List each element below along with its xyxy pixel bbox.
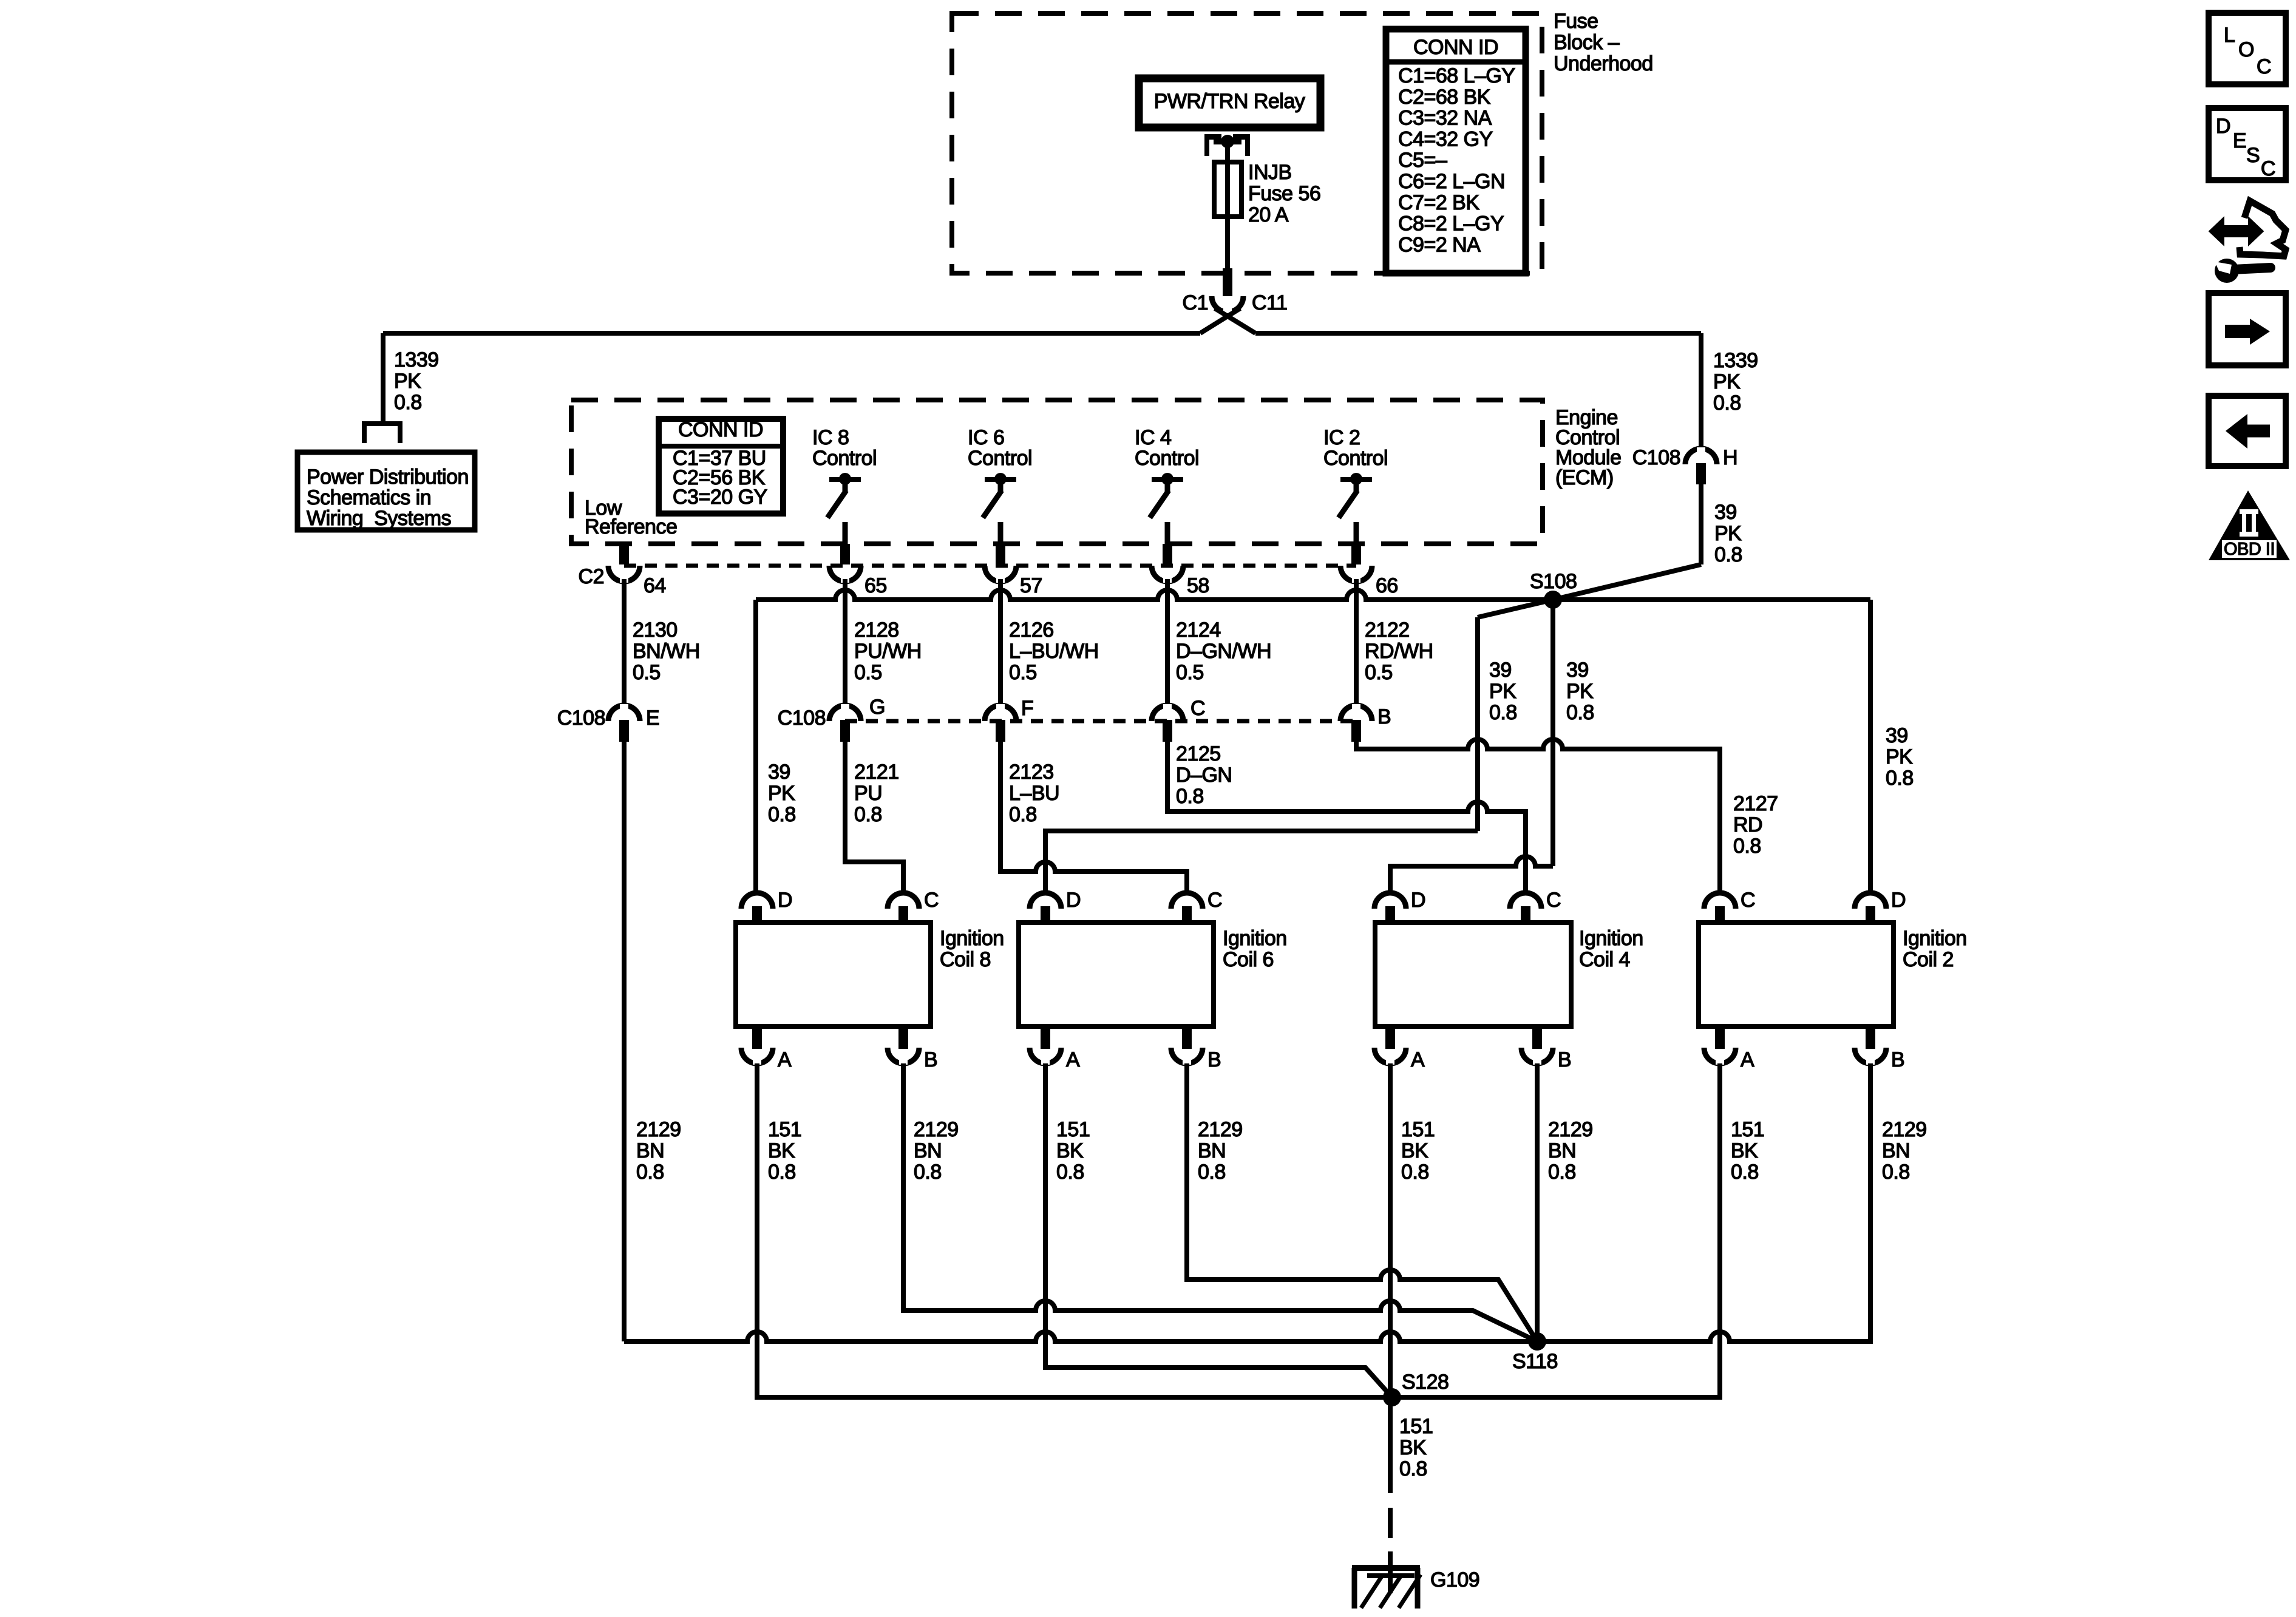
svg-text:64: 64 [644, 574, 666, 597]
svg-text:20 A: 20 A [1248, 203, 1289, 226]
svg-text:0.8: 0.8 [1401, 1161, 1429, 1184]
svg-text:0.8: 0.8 [1566, 701, 1594, 724]
svg-text:151: 151 [1731, 1118, 1764, 1141]
svg-text:Coil 6: Coil 6 [1223, 948, 1274, 971]
svg-text:C7=2 BK: C7=2 BK [1398, 191, 1479, 214]
svg-text:CONN ID: CONN ID [678, 418, 763, 441]
svg-text:S118: S118 [1512, 1350, 1558, 1373]
svg-text:0.8: 0.8 [1548, 1161, 1576, 1184]
svg-text:CONN ID: CONN ID [1413, 36, 1498, 59]
svg-text:C2: C2 [579, 565, 604, 588]
svg-text:57: 57 [1020, 574, 1042, 597]
svg-text:2129: 2129 [636, 1118, 681, 1141]
svg-text:C108: C108 [557, 707, 605, 730]
svg-text:C1: C1 [1183, 291, 1208, 314]
svg-text:2122: 2122 [1365, 619, 1410, 642]
svg-text:Fuse 56: Fuse 56 [1248, 182, 1320, 205]
svg-text:151: 151 [1401, 1118, 1435, 1141]
svg-text:E: E [2233, 129, 2246, 152]
svg-text:L–BU: L–BU [1009, 782, 1059, 805]
svg-text:2126: 2126 [1009, 619, 1054, 642]
svg-text:2129: 2129 [1198, 1118, 1243, 1141]
svg-text:PU/WH: PU/WH [854, 640, 922, 663]
svg-text:0.5: 0.5 [1365, 661, 1393, 684]
svg-text:BN: BN [636, 1139, 664, 1162]
svg-text:0.8: 0.8 [914, 1161, 942, 1184]
svg-text:2124: 2124 [1176, 619, 1221, 642]
svg-text:A: A [1741, 1048, 1754, 1071]
svg-text:2129: 2129 [1548, 1118, 1593, 1141]
svg-text:0.8: 0.8 [1733, 835, 1761, 858]
svg-text:0.8: 0.8 [1489, 701, 1517, 724]
svg-text:66: 66 [1376, 574, 1398, 597]
svg-text:C108: C108 [1632, 446, 1680, 469]
svg-text:2129: 2129 [914, 1118, 959, 1141]
svg-text:C: C [924, 889, 939, 912]
svg-text:BN: BN [914, 1139, 942, 1162]
svg-text:0.8: 0.8 [1713, 392, 1741, 415]
svg-text:PU: PU [854, 782, 882, 805]
svg-text:PK: PK [1713, 370, 1741, 393]
svg-text:PK: PK [1566, 680, 1594, 703]
svg-text:2128: 2128 [854, 619, 899, 642]
svg-text:BN: BN [1548, 1139, 1576, 1162]
svg-text:E: E [646, 707, 659, 730]
svg-text:C11: C11 [1252, 291, 1287, 314]
svg-text:0.8: 0.8 [1886, 767, 1914, 790]
svg-text:0.8: 0.8 [1009, 803, 1037, 826]
svg-text:1339: 1339 [394, 348, 439, 371]
svg-text:O: O [2238, 38, 2254, 61]
svg-text:Ignition: Ignition [940, 927, 1004, 950]
svg-text:G: G [869, 696, 885, 719]
svg-text:0.8: 0.8 [636, 1161, 664, 1184]
svg-text:0.5: 0.5 [1009, 661, 1037, 684]
svg-text:39: 39 [768, 761, 790, 784]
svg-text:2129: 2129 [1882, 1118, 1927, 1141]
svg-text:BN: BN [1198, 1139, 1226, 1162]
svg-text:39: 39 [1566, 659, 1589, 682]
svg-text:PWR/TRN Relay: PWR/TRN Relay [1154, 90, 1305, 113]
svg-text:D: D [1411, 889, 1425, 912]
svg-text:C6=2 L–GN: C6=2 L–GN [1398, 170, 1505, 193]
svg-text:PK: PK [1714, 522, 1742, 545]
svg-text:C2=68 BK: C2=68 BK [1398, 86, 1491, 109]
svg-text:(ECM): (ECM) [1555, 466, 1614, 489]
svg-text:IC 4: IC 4 [1135, 426, 1171, 449]
svg-text:A: A [1066, 1048, 1080, 1071]
svg-text:BN: BN [1882, 1139, 1910, 1162]
svg-text:INJB: INJB [1248, 161, 1292, 184]
svg-text:0.8: 0.8 [768, 1161, 796, 1184]
svg-text:1339: 1339 [1713, 349, 1758, 372]
svg-text:C3=32 NA: C3=32 NA [1398, 107, 1492, 130]
svg-text:C: C [2257, 55, 2271, 78]
svg-text:65: 65 [864, 574, 887, 597]
svg-text:BN/WH: BN/WH [633, 640, 700, 663]
svg-text:C8=2 L–GY: C8=2 L–GY [1398, 212, 1504, 236]
svg-text:0.5: 0.5 [854, 661, 882, 684]
svg-text:0.5: 0.5 [633, 661, 661, 684]
svg-text:PK: PK [394, 370, 421, 393]
svg-text:Coil 4: Coil 4 [1579, 948, 1630, 971]
svg-text:0.8: 0.8 [854, 803, 882, 826]
svg-text:C3=20 GY: C3=20 GY [673, 486, 767, 509]
svg-text:C5=–: C5=– [1398, 149, 1447, 172]
svg-text:151: 151 [1399, 1415, 1433, 1438]
svg-text:BK: BK [1056, 1139, 1084, 1162]
svg-text:A: A [1411, 1048, 1425, 1071]
svg-text:OBD II: OBD II [2224, 540, 2275, 559]
svg-text:0.8: 0.8 [1399, 1457, 1427, 1480]
svg-text:Control: Control [968, 447, 1032, 470]
svg-text:0.8: 0.8 [768, 803, 796, 826]
svg-text:G109: G109 [1430, 1568, 1479, 1592]
svg-text:Control: Control [1323, 447, 1388, 470]
svg-text:BK: BK [1399, 1436, 1427, 1459]
svg-text:D–GN: D–GN [1176, 764, 1232, 787]
svg-text:Underhood: Underhood [1554, 52, 1653, 75]
svg-text:L–BU/WH: L–BU/WH [1009, 640, 1099, 663]
svg-text:D: D [1066, 889, 1081, 912]
svg-text:IC 8: IC 8 [812, 426, 849, 449]
svg-text:C1=68 L–GY: C1=68 L–GY [1398, 64, 1515, 87]
svg-text:0.8: 0.8 [1882, 1161, 1910, 1184]
svg-text:0.5: 0.5 [1176, 661, 1204, 684]
svg-text:0.8: 0.8 [1714, 543, 1742, 566]
svg-text:D: D [778, 889, 792, 912]
svg-text:A: A [778, 1048, 792, 1071]
svg-text:C: C [2261, 157, 2275, 180]
svg-text:RD/WH: RD/WH [1365, 640, 1433, 663]
svg-text:Power Distribution: Power Distribution [307, 466, 469, 489]
svg-text:PK: PK [768, 782, 795, 805]
svg-text:F: F [1021, 697, 1033, 720]
svg-text:0.8: 0.8 [394, 391, 422, 414]
svg-text:Coil 8: Coil 8 [940, 948, 991, 971]
svg-text:BK: BK [1731, 1139, 1758, 1162]
svg-text:2127: 2127 [1733, 792, 1778, 815]
svg-text:2130: 2130 [633, 619, 678, 642]
svg-text:0.8: 0.8 [1056, 1161, 1084, 1184]
svg-text:B: B [1377, 705, 1391, 728]
svg-text:B: B [924, 1048, 937, 1071]
svg-text:Fuse: Fuse [1554, 10, 1598, 33]
svg-text:Ignition: Ignition [1223, 927, 1287, 950]
svg-text:S108: S108 [1530, 570, 1577, 593]
svg-text:Reference: Reference [585, 515, 677, 538]
svg-text:C9=2 NA: C9=2 NA [1398, 233, 1481, 256]
svg-text:Ignition: Ignition [1579, 927, 1643, 950]
svg-text:L: L [2224, 24, 2235, 47]
svg-text:C108: C108 [778, 707, 826, 730]
svg-text:B: B [1207, 1048, 1221, 1071]
svg-text:B: B [1558, 1048, 1571, 1071]
svg-text:39: 39 [1489, 659, 1512, 682]
svg-text:0.8: 0.8 [1731, 1161, 1759, 1184]
svg-text:RD: RD [1733, 813, 1762, 836]
svg-text:H: H [1723, 446, 1737, 469]
svg-text:B: B [1891, 1048, 1904, 1071]
svg-text:BK: BK [1401, 1139, 1428, 1162]
svg-text:IC 2: IC 2 [1323, 426, 1360, 449]
svg-text:PK: PK [1489, 680, 1517, 703]
svg-text:0.8: 0.8 [1198, 1161, 1226, 1184]
svg-text:Ignition: Ignition [1903, 927, 1967, 950]
svg-text:0.8: 0.8 [1176, 785, 1204, 808]
svg-text:PK: PK [1886, 745, 1913, 768]
svg-text:BK: BK [768, 1139, 795, 1162]
svg-text:2125: 2125 [1176, 742, 1221, 765]
svg-text:Control: Control [1135, 447, 1199, 470]
svg-text:C: C [1207, 889, 1222, 912]
svg-text:IC 6: IC 6 [968, 426, 1004, 449]
svg-text:C: C [1546, 889, 1561, 912]
svg-text:Block –: Block – [1554, 31, 1620, 54]
svg-text:C: C [1741, 889, 1755, 912]
svg-text:39: 39 [1886, 724, 1908, 747]
svg-text:Control: Control [812, 447, 877, 470]
svg-text:D: D [2216, 115, 2230, 138]
svg-text:Wiring Systems: Wiring Systems [307, 507, 451, 530]
svg-text:Coil 2: Coil 2 [1903, 948, 1954, 971]
svg-text:58: 58 [1187, 574, 1209, 597]
svg-text:151: 151 [768, 1118, 801, 1141]
svg-text:C4=32 GY: C4=32 GY [1398, 127, 1493, 151]
svg-text:D: D [1891, 889, 1906, 912]
svg-text:2123: 2123 [1009, 761, 1054, 784]
svg-text:S: S [2246, 144, 2260, 167]
svg-text:Schematics in: Schematics in [307, 486, 431, 509]
svg-text:S128: S128 [1402, 1371, 1449, 1394]
svg-text:39: 39 [1714, 501, 1737, 524]
svg-text:2121: 2121 [854, 761, 899, 784]
svg-text:C: C [1190, 697, 1205, 720]
svg-text:151: 151 [1056, 1118, 1090, 1141]
svg-text:D–GN/WH: D–GN/WH [1176, 640, 1271, 663]
